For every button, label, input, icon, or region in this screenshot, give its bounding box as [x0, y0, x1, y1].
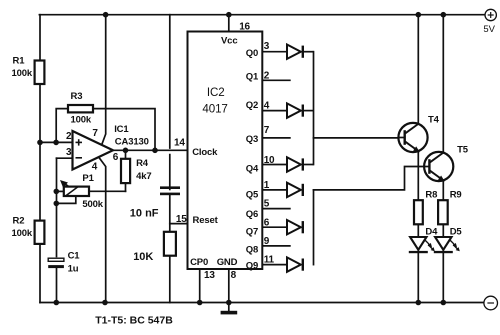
svg-text:IC1: IC1	[114, 124, 129, 135]
svg-text:Q8: Q8	[246, 245, 258, 256]
svg-text:13: 13	[204, 270, 215, 281]
svg-text:6: 6	[113, 152, 119, 163]
svg-text:Q4: Q4	[246, 164, 259, 175]
svg-text:Q6: Q6	[246, 209, 258, 220]
svg-text:Q2: Q2	[246, 100, 258, 111]
svg-text:Reset: Reset	[193, 215, 219, 226]
svg-text:100k: 100k	[71, 115, 92, 126]
svg-text:D4: D4	[425, 227, 438, 238]
svg-text:Q9: Q9	[246, 261, 258, 272]
svg-text:8: 8	[231, 270, 237, 281]
svg-text:100k: 100k	[12, 228, 33, 239]
svg-text:T4: T4	[428, 115, 440, 126]
svg-text:T1-T5: BC 547B: T1-T5: BC 547B	[95, 315, 173, 327]
svg-text:R4: R4	[136, 158, 149, 169]
svg-text:P1: P1	[82, 173, 94, 184]
svg-text:10 nF: 10 nF	[130, 207, 159, 219]
svg-text:GND: GND	[217, 257, 238, 268]
svg-text:IC2: IC2	[207, 86, 225, 99]
svg-text:4017: 4017	[202, 103, 227, 116]
svg-text:3: 3	[264, 41, 270, 52]
svg-text:Vcc: Vcc	[221, 35, 237, 46]
svg-text:R8: R8	[425, 190, 437, 201]
svg-text:10: 10	[264, 155, 275, 166]
svg-text:CP0: CP0	[190, 257, 208, 268]
svg-text:2: 2	[66, 131, 72, 142]
svg-text:Q1: Q1	[246, 72, 259, 83]
svg-text:4: 4	[264, 101, 270, 112]
svg-text:1u: 1u	[68, 263, 79, 274]
svg-text:C1: C1	[68, 251, 81, 262]
svg-text:Q3: Q3	[246, 134, 258, 145]
svg-text:Clock: Clock	[192, 147, 218, 158]
svg-text:6: 6	[264, 217, 270, 228]
svg-text:100k: 100k	[12, 68, 33, 79]
svg-text:R1: R1	[13, 56, 26, 67]
svg-text:5: 5	[264, 199, 270, 210]
svg-text:5V: 5V	[483, 24, 495, 35]
svg-text:Q0: Q0	[246, 48, 258, 59]
svg-text:16: 16	[239, 21, 250, 32]
svg-text:4k7: 4k7	[136, 171, 151, 182]
svg-text:9: 9	[264, 236, 270, 247]
svg-text:R2: R2	[13, 216, 25, 227]
svg-text:500k: 500k	[82, 199, 103, 210]
svg-text:11: 11	[264, 255, 275, 266]
svg-text:R9: R9	[450, 190, 462, 201]
svg-text:CA3130: CA3130	[115, 136, 149, 147]
svg-text:Q5: Q5	[246, 189, 259, 200]
svg-text:10K: 10K	[133, 251, 153, 263]
svg-text:D5: D5	[450, 227, 463, 238]
svg-text:2: 2	[264, 70, 270, 81]
svg-text:7: 7	[92, 128, 98, 139]
svg-text:1: 1	[264, 180, 270, 191]
svg-text:R3: R3	[71, 91, 83, 102]
svg-text:15: 15	[176, 214, 187, 225]
svg-text:3: 3	[66, 147, 72, 158]
svg-text:4: 4	[92, 161, 98, 172]
svg-text:T5: T5	[457, 145, 469, 156]
svg-text:7: 7	[264, 125, 270, 136]
svg-text:Q7: Q7	[246, 227, 258, 238]
svg-text:14: 14	[174, 137, 185, 148]
